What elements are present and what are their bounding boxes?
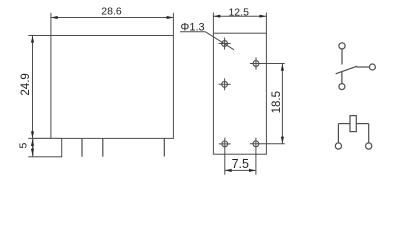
- svg-text:24.9: 24.9: [20, 73, 32, 95]
- svg-text:28.6: 28.6: [101, 6, 122, 18]
- svg-text:7.5: 7.5: [232, 157, 249, 171]
- svg-text:12.5: 12.5: [228, 6, 249, 18]
- svg-text:18.5: 18.5: [271, 91, 283, 113]
- svg-text:5: 5: [17, 143, 29, 149]
- svg-text:Φ1.3: Φ1.3: [181, 21, 205, 33]
